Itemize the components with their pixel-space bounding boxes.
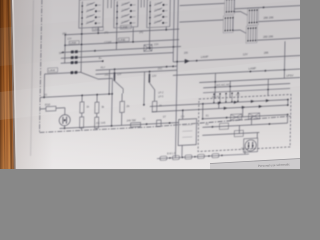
resistor RW bbox=[131, 122, 141, 127]
wire stubs top gap 2 bbox=[141, 0, 144, 8]
label box LINE3 bbox=[69, 41, 79, 45]
diode D2 bbox=[218, 101, 222, 104]
wire drop S3a bbox=[148, 28, 150, 49]
resistor RR1 bbox=[231, 114, 242, 121]
fuse pair FP3 bbox=[71, 61, 74, 64]
wire drop S1a bbox=[80, 28, 83, 72]
wood grain dark streak bbox=[8, 0, 13, 169]
svg-text:COMP: COMP bbox=[155, 9, 162, 11]
wire drop to Q1 bbox=[113, 69, 115, 77]
wire M1 bbox=[96, 66, 178, 70]
fuse F2 bbox=[144, 44, 152, 51]
wire rail link bbox=[287, 100, 289, 106]
relay inner links bbox=[218, 101, 252, 134]
label box LINK bbox=[48, 68, 58, 73]
wire CN2 out bbox=[258, 19, 301, 21]
second sheet edge bottom-right bbox=[210, 159, 300, 170]
wire lamp feed bbox=[173, 56, 300, 62]
long vertical V2 bbox=[175, 0, 178, 158]
label box LINE1 bbox=[92, 27, 103, 31]
svg-text:ST: ST bbox=[163, 116, 167, 119]
svg-text:2SC: 2SC bbox=[104, 74, 109, 77]
wire drop S1b bbox=[97, 27, 99, 33]
svg-text:A/C A/C: A/C A/C bbox=[212, 95, 221, 98]
connector CN2 bbox=[247, 8, 258, 26]
wire aux bbox=[199, 78, 300, 83]
wire U1 left edge riser bbox=[202, 104, 204, 119]
chain junction dots bbox=[169, 155, 223, 159]
inline connector P2 bbox=[172, 155, 179, 159]
wood tone overlay bbox=[0, 0, 14, 169]
wire K1 stems bbox=[181, 110, 184, 157]
paper edge highlight bbox=[12, 0, 17, 169]
bus wire 1 bbox=[65, 29, 179, 35]
svg-text:286 286: 286 286 bbox=[263, 15, 274, 20]
rail 5 bbox=[202, 133, 259, 136]
bottom harness chain wire bbox=[157, 154, 249, 159]
wire drop S2b bbox=[132, 27, 134, 42]
svg-text:LP-2: LP-2 bbox=[158, 91, 164, 94]
wire left riser bbox=[43, 74, 45, 97]
svg-text:LINK: LINK bbox=[70, 41, 76, 45]
wire CN4 out bbox=[257, 38, 301, 40]
svg-text:COMP: COMP bbox=[121, 21, 128, 23]
svg-text:5A: 5A bbox=[59, 52, 62, 55]
svg-text:15A: 15A bbox=[154, 43, 159, 46]
svg-text:12V: 12V bbox=[243, 52, 248, 56]
transistor Q2 bbox=[143, 71, 157, 106]
switch block S1 bbox=[79, 0, 104, 28]
wood grain dark streak 2 bbox=[2, 0, 5, 169]
svg-text:COMP: COMP bbox=[122, 3, 129, 5]
connector CN3 bbox=[223, 15, 234, 33]
motor M1 bbox=[243, 138, 257, 152]
switch block S3 bbox=[147, 0, 171, 28]
svg-text:IG: IG bbox=[143, 118, 146, 121]
switch block S2 bbox=[114, 0, 139, 28]
junction dots M wires bbox=[114, 65, 174, 74]
svg-text:CN: CN bbox=[181, 115, 185, 118]
svg-text:R10: R10 bbox=[45, 102, 51, 106]
inline connector P4 bbox=[197, 154, 204, 158]
svg-text:12V: 12V bbox=[152, 75, 157, 78]
pin header ticks bbox=[213, 92, 239, 103]
wire drop to Q2 bbox=[148, 72, 150, 76]
resistor RR2 bbox=[249, 113, 260, 120]
svg-text:COMP: COMP bbox=[154, 21, 161, 23]
bus wire 3 bbox=[61, 47, 181, 53]
wire L1 bbox=[61, 53, 174, 59]
component block K1 bbox=[178, 119, 196, 146]
svg-text:COMP: COMP bbox=[122, 9, 129, 11]
label box LINE4 bbox=[118, 38, 129, 42]
svg-text:COMP: COMP bbox=[87, 3, 94, 5]
relay unit U1 dashed box bbox=[198, 94, 291, 151]
svg-text:(A): (A) bbox=[104, 30, 108, 34]
connector CN4 bbox=[246, 26, 257, 44]
svg-text:286: 286 bbox=[184, 52, 189, 55]
connector CN1 bbox=[224, 0, 235, 14]
rail 4 bbox=[202, 123, 287, 127]
svg-text:COMP: COMP bbox=[87, 9, 94, 11]
resistor RV3 bbox=[95, 102, 99, 113]
diode D3 bbox=[234, 101, 238, 104]
capacitor CW bbox=[157, 120, 162, 127]
diode D7 bbox=[242, 106, 246, 109]
inline connector P5 bbox=[212, 154, 219, 158]
svg-text:24V 5W: 24V 5W bbox=[127, 118, 137, 122]
svg-text:286: 286 bbox=[264, 51, 269, 55]
svg-text:(H): (H) bbox=[241, 146, 245, 150]
resistor RV1 bbox=[80, 102, 84, 113]
wire RV column bbox=[81, 95, 84, 130]
svg-text:280 286: 280 286 bbox=[263, 34, 274, 39]
inline connector P1 bbox=[160, 156, 167, 160]
svg-text:LINK: LINK bbox=[49, 68, 56, 72]
fuse pair FP1 bbox=[71, 50, 74, 53]
wire bus left riser bbox=[64, 35, 67, 63]
wooden table strip on left bbox=[0, 0, 14, 169]
svg-text:2SC 945: 2SC 945 bbox=[96, 122, 106, 126]
svg-text:A/C A/C A/C: A/C A/C A/C bbox=[216, 82, 230, 87]
junction dots on buses bbox=[62, 28, 175, 53]
diode D5 bbox=[266, 99, 270, 102]
fuse pair FP2 bbox=[71, 56, 74, 59]
svg-text:LPSV: LPSV bbox=[286, 73, 293, 77]
schematic bottom border bbox=[40, 116, 291, 132]
rail 1 bbox=[150, 100, 288, 107]
wire L2 bbox=[44, 71, 112, 82]
svg-text:12V: 12V bbox=[67, 38, 72, 41]
wire right riser bbox=[283, 41, 286, 78]
wire top edge feed bbox=[235, 5, 302, 8]
paper sheet background bbox=[0, 0, 300, 169]
resistor R5 bbox=[120, 101, 125, 112]
paper edge shadow along wood bbox=[11, 0, 16, 169]
svg-text:COMP: COMP bbox=[122, 15, 129, 17]
diode D1 bbox=[185, 59, 190, 64]
wire AC feed 1 bbox=[203, 84, 290, 88]
sheet edge line bottom-right bbox=[210, 159, 300, 164]
resistor RB1 bbox=[46, 106, 56, 111]
wire M2 bbox=[96, 70, 178, 74]
svg-text:12V: 12V bbox=[117, 73, 122, 76]
rail 3 bbox=[203, 115, 288, 119]
svg-text:2SC: 2SC bbox=[158, 67, 163, 70]
switch SW-R1 bbox=[234, 11, 247, 16]
resistor RR4 bbox=[234, 130, 243, 136]
transistor Q1 bbox=[108, 69, 123, 95]
svg-text:LINE: LINE bbox=[93, 27, 99, 31]
svg-text:B W L R: B W L R bbox=[167, 152, 176, 155]
wire drop S2a bbox=[115, 28, 117, 50]
svg-text:LP-5: LP-5 bbox=[158, 95, 164, 98]
left paper shadow bbox=[13, 0, 53, 169]
diode D6 bbox=[224, 107, 228, 110]
outer margin border (faint) bbox=[31, 0, 34, 156]
svg-text:LINE: LINE bbox=[119, 38, 125, 42]
wire RB1 stems bbox=[40, 108, 65, 116]
svg-text:A/C: A/C bbox=[236, 94, 240, 97]
resistor R6 bbox=[152, 101, 157, 112]
svg-text:COMP: COMP bbox=[87, 15, 94, 17]
svg-text:LAMP: LAMP bbox=[201, 55, 209, 59]
wire mid horizontal bbox=[40, 94, 112, 98]
connector CN1 wire bbox=[180, 3, 225, 5]
svg-text:LINE: LINE bbox=[121, 25, 127, 29]
lighting unevenness bbox=[0, 0, 300, 66]
diode D4 bbox=[251, 100, 255, 103]
long vertical V1 bbox=[173, 0, 174, 62]
inline connector P3 bbox=[185, 155, 192, 159]
wire center riser bbox=[111, 78, 114, 126]
wire RV column 2 bbox=[96, 95, 99, 130]
rail 2 bbox=[152, 105, 288, 112]
diode D8 bbox=[259, 105, 263, 108]
wire drop S3b bbox=[165, 27, 167, 30]
wire L1b bbox=[61, 61, 103, 63]
fuse pair FP4 bbox=[71, 71, 74, 74]
wire R5 stems bbox=[121, 93, 124, 125]
svg-text:COMP: COMP bbox=[86, 21, 93, 23]
svg-text:RLY: RLY bbox=[101, 66, 106, 69]
resistor RV4 bbox=[95, 117, 99, 128]
wire stubs top gap 1 bbox=[108, 0, 112, 8]
bottom wire bbox=[60, 123, 179, 129]
wire R6 stem bbox=[153, 90, 155, 102]
node (H) tick bbox=[244, 150, 246, 154]
wire lamp return bbox=[173, 69, 301, 75]
label box LINE2 bbox=[120, 25, 131, 29]
bus wire 2 bbox=[65, 40, 179, 46]
resistor RR3 bbox=[219, 123, 228, 129]
switch SW-R2 bbox=[233, 30, 246, 34]
wire drops to relay box bbox=[215, 71, 268, 99]
wire motor feed bbox=[257, 115, 287, 139]
svg-text:COMP: COMP bbox=[104, 41, 112, 44]
schematic left border bbox=[40, 0, 42, 132]
wire lamp stem bbox=[64, 126, 66, 129]
wire AC feed 2 bbox=[203, 88, 290, 92]
svg-text:COMP: COMP bbox=[155, 3, 162, 5]
svg-text:COMP: COMP bbox=[154, 15, 161, 17]
connector CN3 wire bbox=[179, 20, 223, 22]
svg-text:LAMP: LAMP bbox=[248, 66, 256, 70]
svg-text:(A): (A) bbox=[139, 30, 143, 34]
resistor RV2 bbox=[80, 117, 84, 128]
lamp LC1 bbox=[59, 114, 70, 126]
